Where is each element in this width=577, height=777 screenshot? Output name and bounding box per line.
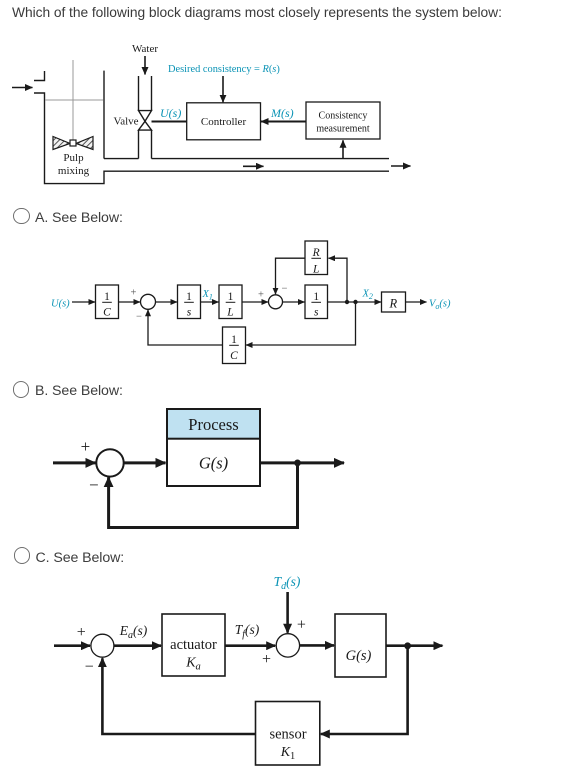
wire valve to controller U(s) bbox=[152, 121, 187, 123]
svg-text:U(s): U(s) bbox=[51, 299, 70, 310]
arrow Td(s) into junction2 bbox=[286, 592, 289, 633]
svg-text:+: + bbox=[262, 651, 271, 668]
svg-text:Process: Process bbox=[188, 415, 238, 434]
svg-text:+: + bbox=[81, 437, 91, 456]
input arrow bbox=[53, 461, 96, 464]
svg-text:1: 1 bbox=[104, 291, 110, 303]
block G(s) bbox=[335, 614, 386, 677]
arrow U(s) input bbox=[72, 301, 95, 303]
wire sensor to junction1 bbox=[102, 658, 255, 734]
arrow channel to measurement bbox=[342, 140, 344, 158]
wire 1/s2 output to R block bbox=[328, 301, 382, 303]
wire process output bbox=[260, 461, 298, 464]
svg-text:Consistency: Consistency bbox=[319, 110, 368, 121]
node X2 tap 2 bbox=[353, 300, 357, 304]
svg-text:s: s bbox=[314, 307, 319, 319]
svg-text:Tf(s): Tf(s) bbox=[235, 622, 260, 640]
outflow arrow bbox=[391, 165, 411, 167]
value R/L bbox=[311, 247, 321, 275]
svg-text:−: − bbox=[282, 284, 288, 295]
block 1/s first bbox=[178, 285, 201, 319]
wire feedback bbox=[109, 463, 298, 528]
mixer impeller right blade bbox=[76, 137, 93, 150]
svg-text:G(s): G(s) bbox=[346, 648, 372, 664]
node output tap bbox=[404, 642, 411, 649]
inlet arrow bbox=[12, 87, 33, 89]
svg-text:Water: Water bbox=[132, 43, 158, 55]
block Consistency measurement bbox=[306, 102, 380, 139]
arrow R(s) into controller bbox=[222, 76, 224, 102]
water pipe bbox=[138, 76, 140, 111]
output arrow bbox=[386, 644, 442, 647]
block R bbox=[382, 292, 406, 312]
svg-text:Desired consistency = R(s): Desired consistency = R(s) bbox=[168, 64, 280, 75]
block actuator Ka bbox=[162, 614, 225, 676]
svg-text:sensor: sensor bbox=[269, 727, 306, 743]
channel top right segment bbox=[152, 158, 390, 160]
wire 1/C feedback to junction1 bbox=[148, 310, 223, 345]
summing junction 2 bbox=[269, 295, 283, 309]
svg-text:Controller: Controller bbox=[201, 116, 247, 128]
svg-text:Valve: Valve bbox=[113, 116, 138, 128]
svg-text:R: R bbox=[312, 247, 320, 259]
output arrow bbox=[298, 461, 345, 464]
svg-text:measurement: measurement bbox=[316, 124, 370, 135]
arrow junction1 to actuator bbox=[114, 644, 161, 647]
wire feedback down to sensor bbox=[321, 646, 408, 734]
node output tap bbox=[294, 460, 301, 467]
wire tap2 down into 1/C feedback bbox=[246, 302, 356, 345]
inlet upper lip bbox=[34, 71, 45, 81]
svg-text:C: C bbox=[103, 307, 111, 319]
arrow R to Vo(s) bbox=[406, 301, 427, 303]
svg-text:L: L bbox=[312, 263, 319, 275]
arrow actuator to junction2 bbox=[225, 644, 275, 647]
summing junction 1 bbox=[141, 294, 156, 309]
node X2 tap 1 bbox=[345, 300, 349, 304]
summing junction 2 bbox=[276, 634, 299, 657]
block R/L bbox=[305, 241, 328, 275]
value 1/s first bbox=[184, 291, 194, 319]
svg-text:+: + bbox=[258, 290, 264, 301]
svg-text:Td(s): Td(s) bbox=[274, 574, 301, 592]
svg-text:−: − bbox=[89, 476, 99, 495]
svg-text:1: 1 bbox=[186, 291, 192, 303]
svg-text:Pulp: Pulp bbox=[63, 152, 84, 164]
flow arrow in channel bbox=[243, 165, 264, 167]
svg-text:1: 1 bbox=[313, 291, 319, 303]
value 1/C first bbox=[102, 291, 112, 319]
arrow junction1 to 1/s bbox=[156, 301, 178, 303]
svg-text:1: 1 bbox=[228, 291, 234, 303]
pipe below valve bbox=[138, 130, 140, 159]
tank left wall and bottom with outlet step bbox=[34, 93, 389, 184]
svg-text:U(s): U(s) bbox=[160, 106, 181, 120]
arrow M(s) into controller bbox=[261, 121, 306, 123]
arrow into summing junction 2 bbox=[242, 301, 268, 303]
summing junction bbox=[96, 449, 123, 476]
svg-text:R: R bbox=[388, 296, 397, 310]
arrow junction2 to G(s) bbox=[300, 644, 334, 647]
arrow X1 to 1/L bbox=[201, 301, 219, 303]
water down arrow bbox=[144, 56, 146, 75]
svg-text:Vo(s): Vo(s) bbox=[429, 299, 451, 312]
mixer shaft bbox=[72, 60, 74, 141]
valve symbol bbox=[139, 111, 152, 122]
arrow into summing junction 1 bbox=[119, 301, 141, 303]
block Controller bbox=[187, 103, 261, 140]
input arrow bbox=[54, 644, 90, 647]
block 1/s second bbox=[305, 285, 328, 319]
arrow junction2 to 1/s second bbox=[283, 301, 305, 303]
svg-text:s: s bbox=[187, 307, 192, 319]
svg-text:−: − bbox=[136, 312, 142, 323]
svg-text:1: 1 bbox=[231, 334, 237, 346]
svg-text:C: C bbox=[230, 350, 238, 362]
wire R/L output down into junction2 bbox=[276, 258, 306, 294]
svg-text:actuator: actuator bbox=[170, 637, 217, 653]
svg-text:+: + bbox=[297, 617, 306, 634]
value 1/C feedback bbox=[229, 334, 239, 362]
value 1/s second bbox=[311, 291, 321, 319]
svg-text:mixing: mixing bbox=[58, 165, 90, 177]
svg-text:+: + bbox=[77, 624, 86, 641]
value 1/L bbox=[226, 291, 236, 319]
tank right wall bbox=[103, 71, 105, 159]
liquid level line bbox=[45, 99, 104, 101]
block sensor K1 bbox=[256, 702, 320, 766]
svg-text:Ea(s): Ea(s) bbox=[119, 623, 148, 641]
mixer impeller left blade bbox=[53, 137, 70, 150]
svg-text:L: L bbox=[226, 307, 233, 319]
block 1/C feedback bbox=[223, 327, 246, 364]
svg-text:G(s): G(s) bbox=[199, 454, 228, 473]
block Process G(s) bbox=[167, 409, 260, 486]
svg-text:X1: X1 bbox=[202, 289, 213, 302]
summing junction 1 bbox=[91, 634, 114, 657]
svg-text:−: − bbox=[85, 659, 94, 676]
wire tap up into R/L bbox=[329, 258, 348, 302]
mixer hub bbox=[70, 140, 76, 146]
channel top left segment bbox=[104, 158, 139, 160]
svg-text:M(s): M(s) bbox=[270, 106, 294, 120]
arrow junction to process bbox=[123, 461, 165, 464]
svg-text:+: + bbox=[131, 288, 137, 299]
block 1/L bbox=[219, 285, 242, 319]
svg-text:X2: X2 bbox=[362, 289, 373, 302]
block 1/C first bbox=[96, 285, 119, 319]
